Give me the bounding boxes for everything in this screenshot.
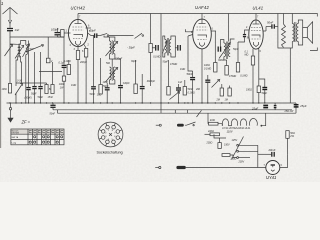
- wire bus B: [53, 109, 292, 111]
- coil L7: [113, 67, 115, 80]
- wire bus right end drop: [295, 103, 297, 113]
- IFT2 core: [227, 42, 228, 60]
- ground: [7, 103, 13, 123]
- mains switch line: [156, 124, 159, 126]
- resistor R16: [228, 88, 231, 96]
- svg-text:MΩ: MΩ: [245, 54, 249, 57]
- svg-text:260: 260: [195, 88, 201, 91]
- selector contact 3: [237, 157, 250, 159]
- svg-text:200pF: 200pF: [79, 61, 87, 64]
- capacitor C9: [105, 83, 110, 103]
- switch S2: [185, 122, 196, 125]
- svg-text:0.5MΩ: 0.5MΩ: [170, 63, 177, 66]
- wire R19: [283, 14, 285, 25]
- resistor R7: [84, 49, 87, 58]
- node bus junctions: [9, 102, 265, 103]
- wire R7 down: [85, 57, 87, 103]
- capacitor C23 20mF: [258, 152, 274, 157]
- wire R24: [230, 155, 237, 158]
- tuning gang arrow: [26, 45, 44, 52]
- antenna A1: [3, 8, 18, 24]
- capacitor C24 25uF right: [294, 105, 299, 107]
- coil arrow 2: [15, 45, 24, 58]
- wire IFT2 anode drop: [228, 14, 230, 42]
- capacitor C5 50nF bus: [50, 103, 55, 110]
- wire C14: [152, 47, 155, 49]
- svg-text:3-30: 3-30: [17, 80, 22, 83]
- svg-text:50nF: 50nF: [38, 96, 44, 99]
- resistor R15: [225, 66, 228, 76]
- wire bus jct x175: [174, 110, 176, 113]
- capacitor C21 50nF: [266, 24, 278, 31]
- wire osc right: [115, 59, 121, 60]
- wire IFT1 b bottom: [171, 48, 175, 57]
- resistor R21 31ohm: [209, 122, 219, 125]
- svg-text:0.5MΩ: 0.5MΩ: [229, 75, 236, 78]
- wire tap: [214, 134, 226, 138]
- svg-text:50nF: 50nF: [103, 85, 109, 88]
- coil L3 variable: [26, 45, 28, 55]
- tube U1 UCH42: [68, 14, 91, 51]
- wire selector drop: [257, 145, 259, 167]
- capacitor C26: [259, 79, 267, 103]
- fuse F1: [177, 124, 184, 127]
- wire U3 pin6: [258, 56, 260, 103]
- capacitor C15: [178, 45, 181, 51]
- wire IFT2 a bottom: [224, 57, 227, 60]
- heater drop: [207, 113, 209, 124]
- wire C3 up: [34, 52, 36, 87]
- resistor R11: [167, 87, 170, 96]
- resistor R5: [67, 65, 70, 75]
- svg-text:150Ω: 150Ω: [246, 89, 252, 92]
- table circles row3: [29, 141, 58, 143]
- resistor R25: [286, 131, 289, 139]
- resistor R22: [210, 133, 220, 136]
- switch S1b: [135, 33, 144, 38]
- wire R8: [100, 58, 102, 85]
- heater H4: [249, 118, 257, 125]
- trimmer arrow L4: [106, 42, 118, 57]
- capacitor C20: [238, 30, 249, 42]
- capacitor C16: [176, 84, 181, 103]
- wire L6 bottom: [110, 80, 115, 84]
- svg-text:150V: 150V: [224, 143, 230, 146]
- trimmer arrow IFT2: [219, 43, 230, 59]
- tube U3 UL41: [249, 14, 266, 57]
- trimmer arrow L6: [106, 68, 118, 83]
- wire R13: [214, 31, 216, 63]
- wire IFT1 b top: [171, 36, 178, 48]
- wire R9: [135, 60, 137, 84]
- resistor R24: [222, 154, 230, 157]
- svg-text:0.1MΩ: 0.1MΩ: [188, 92, 195, 95]
- wire R18: [252, 65, 254, 103]
- wire T1 sec bottom: [298, 38, 302, 46]
- wire pin5 jog: [88, 33, 95, 36]
- trimmer arrow T1: [5, 45, 13, 57]
- resistor R13: [214, 63, 217, 73]
- svg-text:50pF: 50pF: [31, 93, 37, 96]
- wire R3: [52, 80, 54, 85]
- IFT2 winding a: [224, 43, 226, 57]
- wire L4 bottom: [110, 54, 115, 59]
- heater H3: [240, 119, 246, 126]
- capacitor C3: [32, 87, 36, 103]
- wire link row: [39, 71, 62, 73]
- resistor R19 zigzag: [282, 24, 286, 47]
- svg-text:KW MW: KW MW: [12, 133, 19, 135]
- node mains end: [159, 124, 161, 126]
- wire R15: [226, 60, 228, 66]
- capacitor C17 50nF: [190, 71, 195, 103]
- wire T1 primary bottom: [284, 42, 293, 49]
- capacitor C6 100pF: [55, 28, 61, 37]
- resistor R9: [134, 84, 137, 94]
- svg-text:UL41: UL41: [253, 6, 264, 11]
- wire IFT2 b: [230, 39, 234, 43]
- wire feedback: [278, 14, 284, 49]
- pot arrow P1: [170, 92, 180, 100]
- wire R16: [229, 86, 231, 89]
- capacitor C10 50pF: [95, 33, 97, 38]
- svg-text:25µF: 25µF: [299, 104, 307, 108]
- svg-text:±40pF: ±40pF: [123, 82, 130, 85]
- wire speaker bottom hook: [310, 48, 317, 51]
- pot arrow P2: [212, 80, 220, 88]
- wire mains to UY41: [186, 167, 266, 169]
- svg-text:31Ω: 31Ω: [210, 118, 215, 122]
- svg-text:UCH42: UCH42: [71, 6, 86, 11]
- wire L3 bottom: [25, 55, 27, 103]
- resistor R3: [51, 85, 54, 94]
- heater H1: [222, 119, 228, 126]
- svg-text:(30pF): (30pF): [25, 97, 32, 100]
- svg-text:250Ω: 250Ω: [230, 158, 237, 161]
- svg-text:2W: 2W: [289, 135, 294, 138]
- coil L6: [110, 67, 112, 80]
- capacitor C19: [218, 47, 220, 52]
- svg-text:0.1MΩ: 0.1MΩ: [64, 60, 71, 63]
- svg-text:200V: 200V: [238, 161, 245, 164]
- svg-text:1nF: 1nF: [15, 28, 20, 32]
- table header text: [12, 130, 63, 144]
- capacitor C7: [62, 65, 67, 103]
- svg-text:50nF: 50nF: [187, 72, 193, 76]
- wire R26 col: [47, 37, 49, 58]
- resistor R4 grid box: [61, 30, 64, 37]
- coil L4: [110, 41, 112, 54]
- wire R12: [184, 80, 186, 87]
- capacitor C1 1nF: [7, 29, 13, 31]
- svg-text:50nF: 50nF: [267, 21, 273, 25]
- wire L2 bottom: [20, 56, 23, 83]
- wire coil tops: [10, 43, 18, 45]
- resistor R12: [183, 87, 186, 96]
- wire screen riser: [289, 48, 291, 103]
- wire R14: [221, 84, 223, 88]
- svg-text:0.1MΩ: 0.1MΩ: [153, 56, 160, 59]
- resistor R2: [45, 85, 48, 94]
- wire osc top: [104, 36, 110, 38]
- svg-text:1MΩ: 1MΩ: [2, 88, 7, 91]
- wire chain to bus: [261, 113, 265, 126]
- svg-text:ZF =: ZF =: [21, 120, 31, 125]
- table circles row2: [34, 136, 63, 138]
- transformer T1 secondary: [297, 24, 299, 42]
- wire speaker top hook: [314, 14, 317, 17]
- svg-text:100pF: 100pF: [51, 28, 59, 32]
- wire bus C: [58, 112, 297, 114]
- svg-text:120pF: 120pF: [115, 57, 123, 61]
- svg-text:125V: 125V: [232, 139, 238, 142]
- capacitor C25: [274, 103, 277, 110]
- svg-text:MW TA: MW TA: [12, 136, 19, 139]
- table frame: [11, 129, 64, 145]
- capacitor C14: [156, 45, 159, 51]
- wire chain links: [228, 125, 231, 127]
- wire R6 down: [77, 60, 79, 104]
- mains line bottom: [155, 167, 158, 169]
- capacitor C4: [38, 87, 42, 103]
- node chain end: [261, 125, 263, 127]
- wire L2 top to junction: [21, 41, 26, 46]
- core L6/L7: [111, 66, 113, 81]
- wire L1 bottom down: [16, 56, 18, 83]
- core L4/L5: [111, 40, 113, 55]
- socket circle: [98, 122, 123, 147]
- svg-text:Lang: Lang: [12, 142, 16, 144]
- svg-text:50nF: 50nF: [50, 113, 56, 116]
- wire IFT1 a top: [163, 36, 165, 48]
- wire R5: [68, 60, 70, 65]
- trimmer arrow T2: [15, 83, 23, 103]
- svg-text:20mF: 20mF: [268, 148, 276, 152]
- coil L5: [113, 41, 115, 54]
- wire IFT1 a bottom: [163, 48, 165, 57]
- wire bus jct x161: [160, 103, 162, 113]
- svg-text:0.1MΩ: 0.1MΩ: [204, 68, 211, 71]
- wire row top left: [16, 82, 47, 84]
- svg-text:UAF42: UAF42: [195, 5, 209, 10]
- resistor R18: [251, 56, 254, 65]
- node S2: [193, 125, 194, 126]
- svg-text:200Ω: 200Ω: [206, 142, 213, 145]
- wire antenna to tuner: [10, 31, 64, 37]
- resistor R20 150: [257, 86, 260, 93]
- wire to switch: [97, 35, 100, 37]
- wire tuner drop left: [9, 37, 11, 44]
- wire switch on: [109, 35, 134, 37]
- heater H2: [231, 119, 237, 126]
- wire R11: [168, 60, 170, 87]
- trimmer arrow L3: [23, 44, 30, 57]
- wire HT drop IFT1: [150, 14, 152, 44]
- svg-text:50pF: 50pF: [163, 61, 169, 64]
- capacitor C8: [91, 36, 96, 104]
- svg-text:UY41: UY41: [266, 175, 276, 180]
- node mains bottom: [159, 166, 161, 168]
- resistor R1: [8, 84, 11, 94]
- wire R10: [150, 53, 152, 87]
- wire det: [188, 36, 193, 71]
- svg-text:1nF: 1nF: [178, 81, 183, 84]
- capacitor C22 25uF: [263, 105, 268, 107]
- table header cell marks: [29, 130, 63, 132]
- wire T1 primary top: [291, 14, 293, 24]
- resistor R27: [236, 63, 239, 73]
- coil L1: [18, 44, 20, 56]
- resistor R6 cathode: [76, 51, 79, 60]
- wire T1 sec top: [298, 20, 302, 28]
- wire busC hook: [57, 110, 59, 113]
- wire grid feed: [57, 33, 68, 37]
- wire R27: [237, 42, 239, 63]
- resistor R23: [218, 143, 221, 149]
- scan edge line left: [0, 0, 2, 148]
- svg-text:1: 1: [1, 1, 3, 6]
- wire R3 up: [52, 62, 54, 80]
- transformer T1 primary: [292, 24, 294, 42]
- svg-text:50µF: 50µF: [262, 92, 268, 95]
- resistor R10: [149, 44, 152, 53]
- wire bus jct x187: [187, 110, 189, 113]
- IFT1 core: [167, 38, 168, 56]
- socket pin labels: [105, 130, 116, 141]
- wire IFT1 down: [160, 14, 162, 104]
- capacitor C18: [205, 75, 210, 103]
- selector S3 blade: [232, 137, 244, 160]
- resistor R14: [220, 88, 223, 96]
- capacitor C13: [140, 74, 145, 103]
- wire HT riser: [287, 138, 289, 154]
- core L1/L2: [18, 43, 20, 57]
- wire IFT2 a top: [221, 40, 224, 50]
- wire R1: [9, 44, 11, 84]
- capacitor C2: [26, 41, 30, 104]
- tube U4 UY41: [266, 161, 280, 175]
- svg-text:10nF: 10nF: [103, 81, 109, 84]
- switch S1: [100, 33, 109, 36]
- trimmer arrows IFT1: [162, 41, 167, 53]
- capacitor C11: [118, 60, 123, 103]
- svg-text:500: 500: [106, 62, 111, 65]
- resistor R26: [46, 58, 50, 63]
- wire R23: [219, 138, 221, 143]
- resistor R8: [99, 85, 102, 95]
- fuse F2: [176, 166, 185, 169]
- svg-text:16Ω: 16Ω: [97, 93, 102, 96]
- wire under tube left: [63, 37, 65, 65]
- speaker LS: [303, 22, 313, 43]
- svg-text:30pF: 30pF: [131, 60, 137, 63]
- transformer T1 core: [295, 22, 296, 42]
- wire R22: [205, 133, 211, 135]
- IFT1 winding b: [169, 40, 171, 54]
- tube U2 UAF42: [186, 14, 217, 104]
- wire antenna down: [9, 24, 11, 28]
- wire L4 top: [110, 37, 115, 41]
- wire UY41 right: [280, 154, 288, 167]
- svg-text:300Ω: 300Ω: [218, 59, 224, 62]
- svg-text:4600pF: 4600pF: [147, 80, 156, 83]
- svg-text:25Ω 2W: 25Ω 2W: [284, 110, 294, 113]
- IFT2 winding b: [229, 43, 231, 57]
- wire R2: [46, 83, 48, 85]
- svg-text:Sockelschaltung: Sockelschaltung: [97, 150, 123, 154]
- svg-text:1MΩ: 1MΩ: [180, 68, 185, 71]
- wire ground bus A: [7, 102, 297, 104]
- wire chain: [218, 124, 222, 126]
- wire top HT rail y=13.5: [78, 13, 314, 15]
- svg-text:50nF: 50nF: [90, 93, 96, 96]
- svg-text:- 30pF: - 30pF: [127, 46, 135, 50]
- selector contact 2: [237, 150, 258, 152]
- selector contact 1: [237, 144, 258, 146]
- svg-text:1M: 1M: [225, 99, 228, 102]
- switch S4 bus: [197, 110, 202, 117]
- svg-text:110V: 110V: [227, 129, 233, 133]
- svg-text:15nF: 15nF: [48, 96, 54, 99]
- svg-text:50pF: 50pF: [90, 29, 96, 33]
- svg-text:1MΩ: 1MΩ: [71, 84, 76, 87]
- coil L2: [19, 44, 21, 56]
- wire L6 top: [111, 59, 113, 66]
- svg-text:25µF: 25µF: [251, 106, 259, 110]
- resistor R28: [62, 76, 65, 81]
- svg-text:2M: 2M: [216, 99, 220, 102]
- wire C4 up: [40, 52, 42, 87]
- IFT1 winding a: [165, 40, 167, 54]
- svg-text:0.1MΩ: 0.1MΩ: [240, 75, 247, 78]
